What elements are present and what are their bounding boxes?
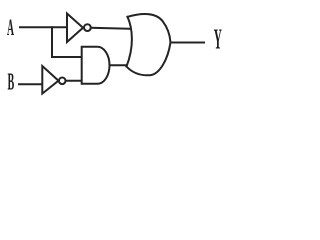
svg-text:A: A [7, 14, 14, 40]
svg-text:Y: Y [214, 24, 222, 56]
svg-text:B: B [8, 69, 15, 95]
